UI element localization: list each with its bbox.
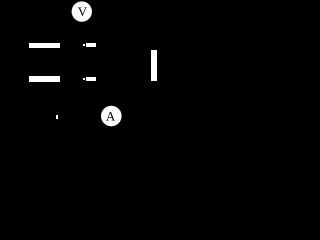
svg-text:V: V bbox=[78, 4, 88, 19]
node dot (top) bbox=[83, 44, 85, 46]
svg-text:A: A bbox=[106, 109, 116, 124]
wire stub tick bbox=[56, 115, 58, 119]
capacitor plate (top) bbox=[29, 43, 60, 48]
node dot (bottom) bbox=[83, 78, 85, 80]
capacitor plate (bottom) bbox=[29, 76, 60, 82]
voltmeter V bbox=[72, 1, 92, 21]
terminal bar (top) bbox=[86, 43, 96, 47]
ammeter A bbox=[101, 106, 122, 127]
terminal bar (bottom) bbox=[86, 77, 96, 81]
electrode bar (right) bbox=[151, 50, 157, 81]
